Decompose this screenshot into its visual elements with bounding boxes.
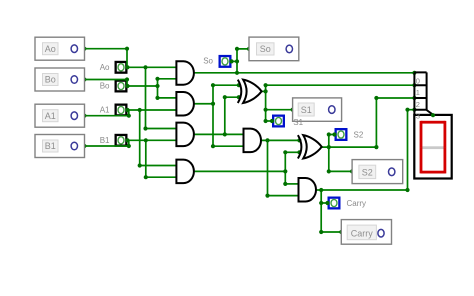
svg-text:Carry: Carry (347, 199, 367, 208)
svg-text:2: 2 (416, 100, 420, 109)
AND gate 4 (176, 160, 194, 184)
svg-text:1: 1 (416, 88, 420, 97)
port S2 (output pin) (336, 129, 347, 140)
wire net AND5 output to XOR2.A and AND6.B (261, 138, 302, 197)
AND gate 2 (176, 92, 194, 116)
port Bo (input pin) (116, 81, 127, 92)
wire net S1: XOR1 output to display pin 1, S1 output box and S1 port (261, 83, 417, 123)
svg-text:3: 3 (416, 112, 420, 121)
port B1 (input pin) (116, 135, 127, 146)
segment f (top-left) (420, 121, 423, 147)
wire net AND2 output to XOR1.A and AND5.B (194, 83, 244, 148)
output box So (indicator) (249, 37, 299, 61)
wire net A0: input box Ao to port Ao to AND1.A and AND3.A (82, 47, 177, 131)
svg-text:Ao: Ao (45, 44, 56, 54)
wire net Carry: AND6 output to display pin 3, Carry port and Carry output box (316, 108, 417, 234)
port A1 (input pin) (116, 105, 127, 116)
svg-text:Carry: Carry (351, 228, 373, 238)
svg-text:A1: A1 (100, 106, 110, 115)
svg-text:So: So (260, 44, 271, 54)
svg-text:Ao: Ao (100, 63, 110, 72)
input box Ao (toggle source) (35, 37, 85, 60)
svg-text:S2: S2 (354, 131, 364, 140)
output box Carry (indicator) (341, 220, 391, 245)
AND gate 6 (carry) (299, 178, 317, 202)
AND gate 1 (A0 AND B0) (176, 61, 193, 84)
wire net B1: input box B1 to port B1 to AND3.B and AND4.B (82, 138, 177, 179)
input box B1 (toggle source) (35, 135, 85, 158)
wire net AND3 output to AND5.A and XOR1.B (194, 95, 244, 136)
XOR gate 2 (298, 135, 322, 158)
wire net AND4 output to XOR2.B and AND6.A (194, 150, 302, 186)
segment c (bottom-right) (444, 147, 447, 173)
svg-text:So: So (203, 57, 213, 66)
wire net B0: input box Bo to port Bo to AND1.B and AND2.A (82, 77, 177, 100)
svg-text:Bo: Bo (100, 82, 110, 91)
input box A1 (toggle source) (35, 104, 85, 127)
wire net S0: AND1 output to display pin 0, So port and So output box (194, 47, 417, 75)
7-segment display input pin block (pins 0-3) (414, 72, 433, 115)
wire net S2: XOR2 output to S2 port, S2 output box and display pin 2 (321, 96, 417, 174)
segment d (bottom) (421, 171, 446, 174)
segment b (top-right) (444, 121, 447, 147)
7-segment display body (414, 115, 451, 179)
svg-text:0: 0 (416, 76, 420, 85)
AND gate 5 (244, 129, 262, 153)
port Ao (input pin) (116, 62, 127, 73)
segment e (bottom-left) (420, 147, 423, 173)
AND gate 3 (176, 123, 194, 147)
svg-text:Bo: Bo (45, 75, 56, 85)
input box Bo (toggle source) (35, 68, 85, 91)
wire net A1: input box A1 to port A1 to AND2.B and AND4.A (82, 108, 177, 168)
svg-text:S2: S2 (362, 167, 373, 177)
node display stem (431, 113, 435, 117)
svg-text:B1: B1 (45, 141, 56, 151)
output box S2 (indicator) (352, 160, 403, 184)
svg-text:A1: A1 (45, 111, 56, 121)
port So (output pin) (220, 56, 231, 67)
XOR gate 1 (238, 80, 262, 103)
svg-text:S1: S1 (293, 118, 303, 127)
segment g (middle, off) (421, 146, 446, 149)
port Carry (output pin) (329, 198, 340, 209)
7-segment digit 0: segment a (top) (421, 121, 446, 124)
output box S1 (indicator) (293, 98, 342, 121)
port S1 (output pin) (273, 116, 284, 127)
svg-text:S1: S1 (301, 105, 312, 115)
svg-text:B1: B1 (100, 136, 110, 145)
